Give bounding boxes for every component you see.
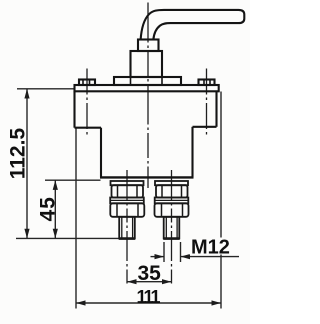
svg-text:35: 35 <box>138 262 162 285</box>
svg-text:45: 45 <box>36 196 59 221</box>
svg-text:112.5: 112.5 <box>6 128 29 180</box>
svg-text:111: 111 <box>137 287 161 307</box>
svg-text:M12: M12 <box>191 236 230 258</box>
